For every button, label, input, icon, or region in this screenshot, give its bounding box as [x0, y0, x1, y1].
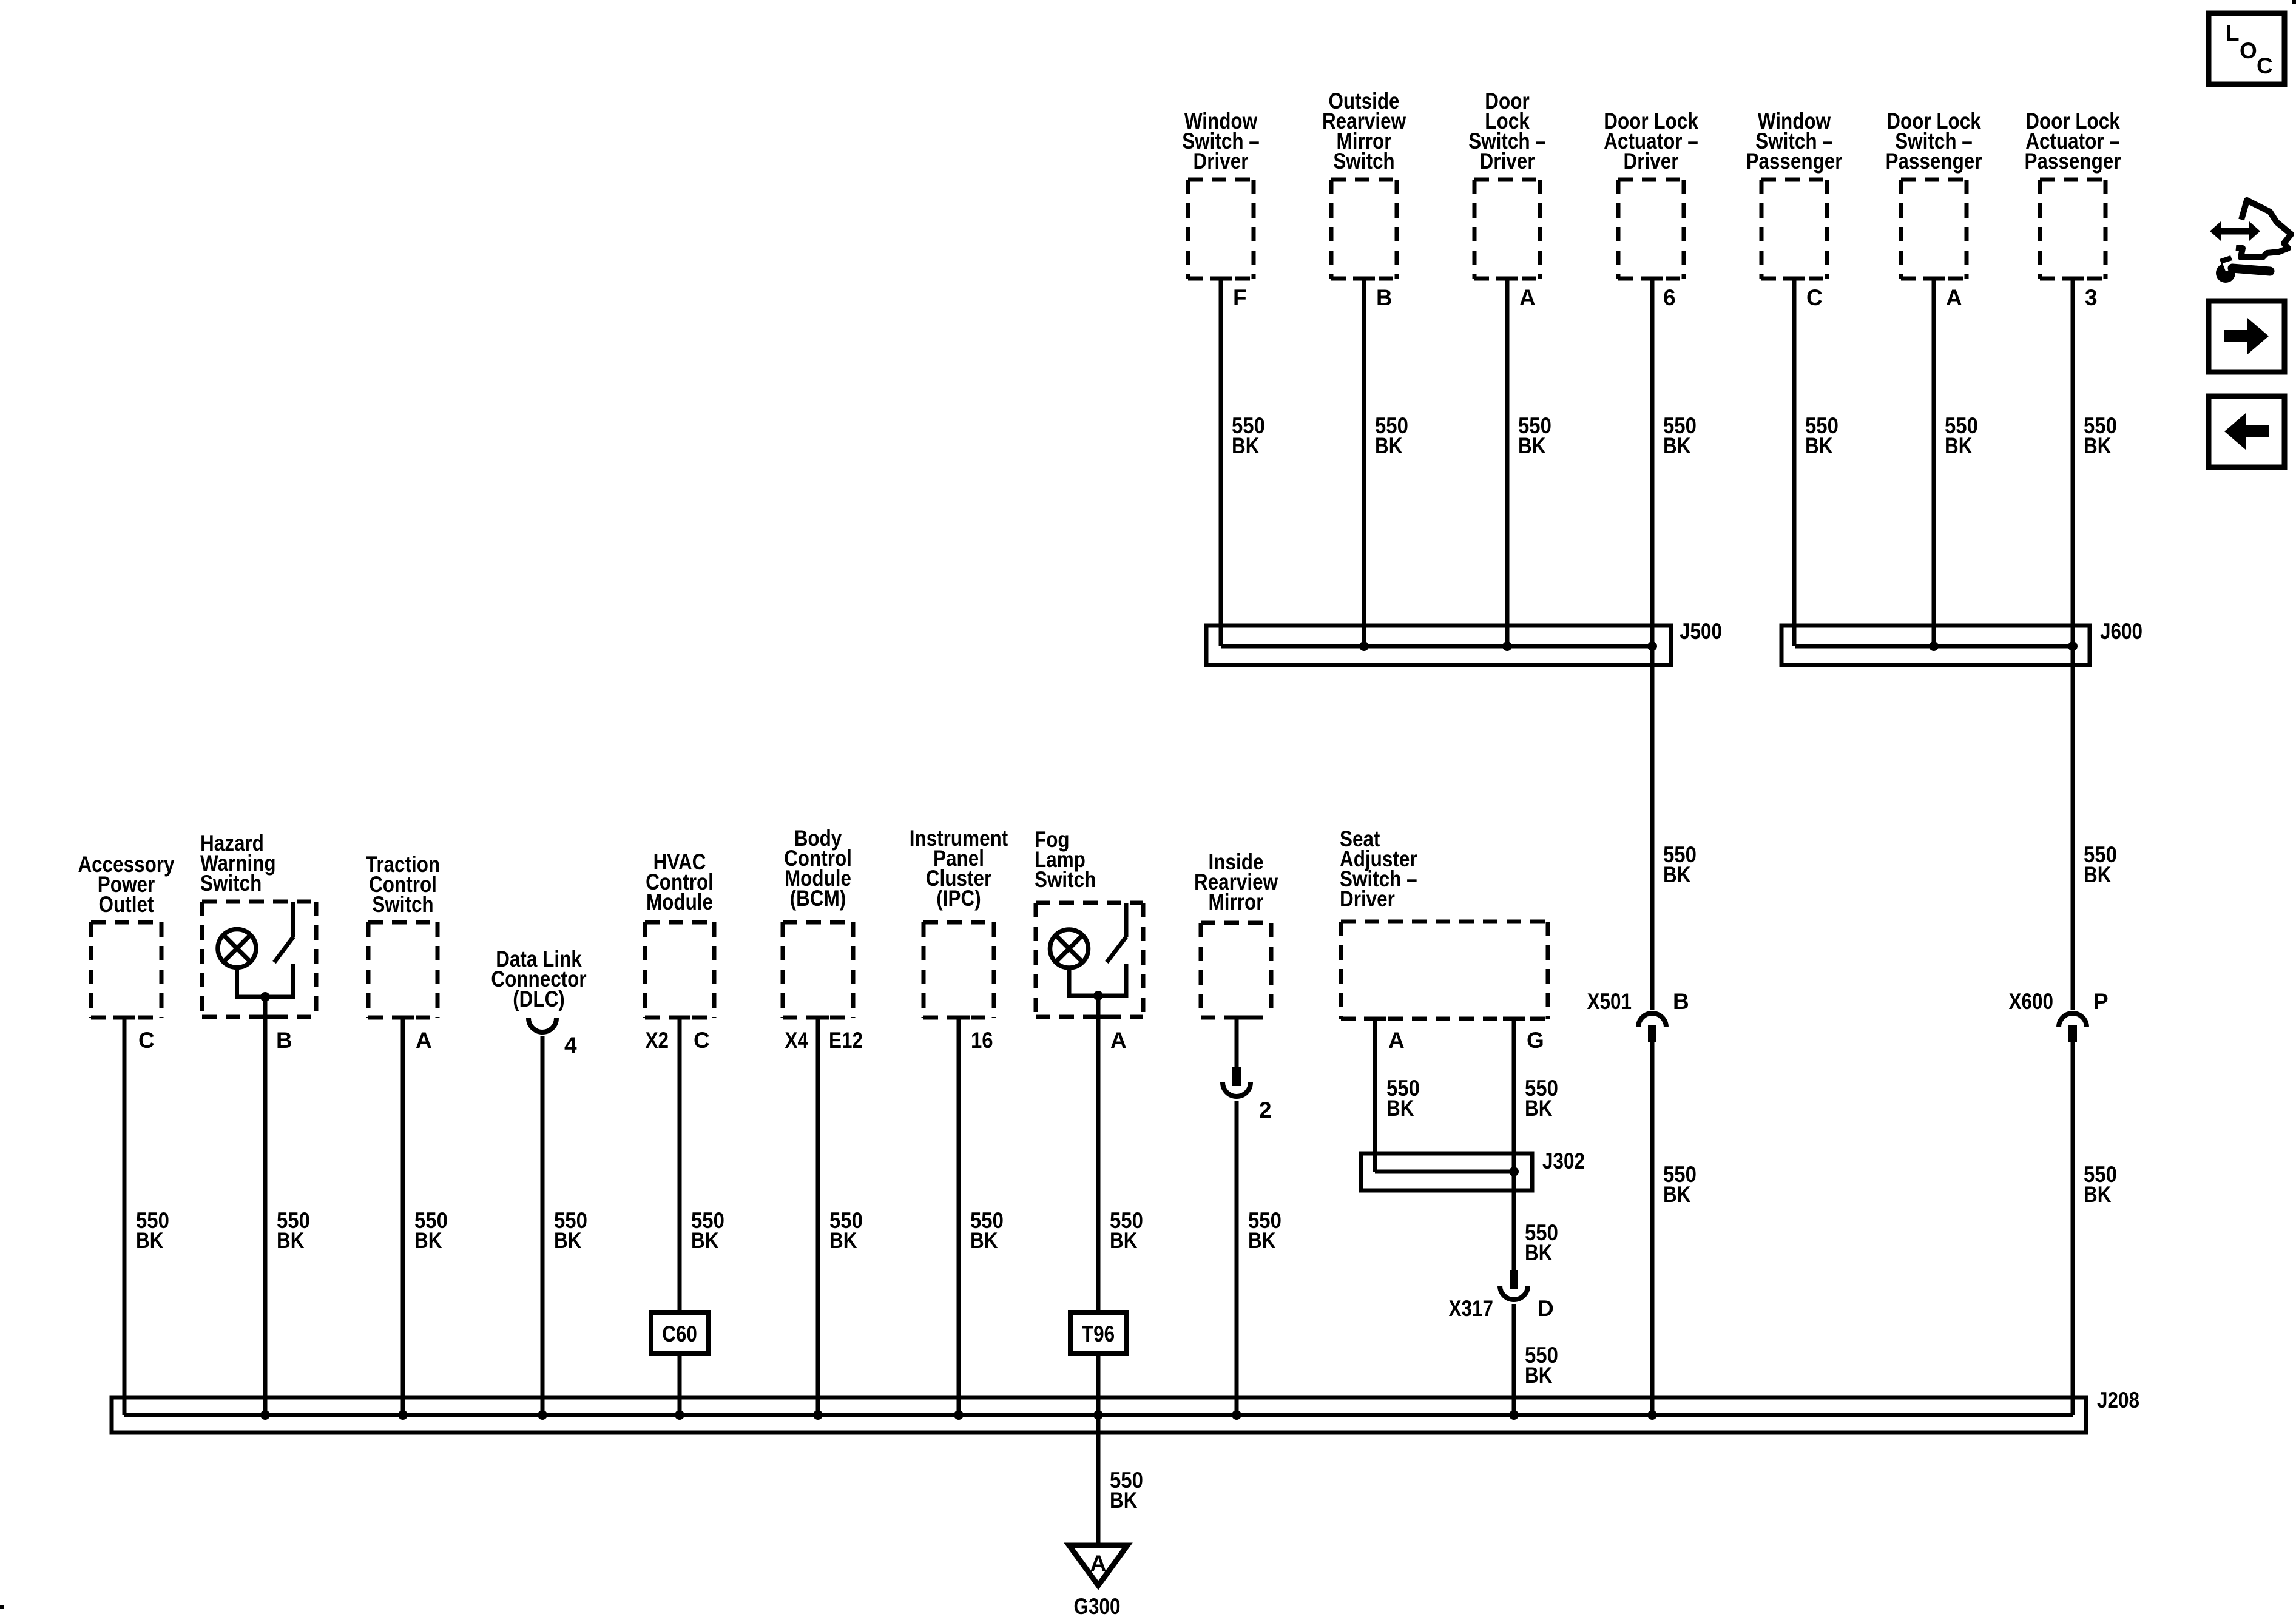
svg-text:BK: BK [1663, 433, 1691, 458]
component Fog Lamp Switch (dashed box with lamp and switch symbols, pin A) [1035, 827, 1143, 1017]
svg-text:BK: BK [829, 1228, 857, 1253]
svg-text:Module: Module [646, 890, 713, 914]
svg-text:Passenger: Passenger [2024, 149, 2121, 174]
wire from X317 to J208 with 550 BK label [1514, 1304, 1558, 1415]
indicator lamp inside Hazard Warning Switch [218, 930, 256, 999]
svg-text:J208: J208 [2097, 1388, 2139, 1413]
component Door Lock Switch - Passenger (dashed box, pin A, wire to J600) [1885, 109, 1982, 646]
svg-text:E12: E12 [829, 1028, 863, 1053]
navigation icon arrow-left box [2209, 396, 2284, 467]
wire from X501 to J208 with 550 BK label [1652, 1042, 1697, 1415]
svg-text:B: B [1673, 989, 1689, 1014]
component Door Lock Actuator - Passenger (dashed box, pin 3, wire through J600 to X600) [2024, 109, 2121, 1010]
svg-text:BK: BK [1805, 433, 1833, 458]
svg-text:Switch: Switch [372, 892, 433, 917]
svg-text:A: A [1946, 285, 1962, 310]
svg-text:BK: BK [136, 1228, 164, 1253]
svg-text:2: 2 [1259, 1098, 1272, 1122]
svg-text:BK: BK [554, 1228, 582, 1253]
component Window Switch - Driver (dashed box, label, pin F, wire to J500) [1182, 109, 1265, 646]
svg-text:A: A [1388, 1028, 1405, 1053]
svg-text:G300: G300 [1074, 1594, 1121, 1617]
wire label 550 BK on X501 wire (upper) [1663, 842, 1697, 887]
wire from X600 to J208 with 550 BK label [2073, 1042, 2117, 1415]
svg-text:4: 4 [564, 1033, 577, 1058]
svg-text:J500: J500 [1680, 619, 1722, 644]
svg-text:A: A [1519, 285, 1536, 310]
component HVAC Control Module (dashed box, connector X2 pin C, wire through C60 to J208) [645, 849, 724, 1312]
component Outside Rearview Mirror Switch (dashed box, pin B, wire to J500) [1322, 89, 1408, 646]
component Accessory Power Outlet (dashed box, pin C, wire to J208) [78, 852, 174, 1415]
splice pack J600 (ground bus bar with junction dots) [1781, 619, 2142, 665]
svg-text:BK: BK [2084, 1182, 2112, 1207]
svg-text:X317: X317 [1449, 1296, 1493, 1321]
icon harness repair (double arrow, panel outline and wrench) [2210, 200, 2291, 283]
harness label box C60 on HVAC ground wire [651, 1312, 709, 1415]
svg-text:Passenger: Passenger [1885, 149, 1982, 174]
component Hazard Warning Switch (dashed box with lamp and switch symbols, pin B) [200, 831, 316, 1017]
svg-text:Driver: Driver [1624, 149, 1679, 174]
svg-text:(DLC): (DLC) [513, 987, 565, 1011]
wire A from Seat Adjuster Switch to J302 with 550 BK label [1375, 1019, 1420, 1172]
svg-text:C: C [694, 1028, 710, 1053]
svg-text:A: A [1110, 1028, 1127, 1053]
svg-text:BK: BK [1663, 862, 1691, 887]
svg-text:L: L [2226, 21, 2240, 46]
component Door Lock Switch - Driver (dashed box, pin A, wire to J500) [1468, 89, 1551, 646]
svg-text:D: D [1538, 1296, 1554, 1321]
in-line connector X501 pin B [1587, 989, 1689, 1042]
svg-text:G: G [1527, 1028, 1544, 1053]
svg-text:C: C [2257, 53, 2273, 78]
wire G from Seat Adjuster Switch through J302 to X317 with 550 BK label [1514, 1019, 1558, 1270]
ground symbol G300 (triangle with pin A) [1069, 1545, 1127, 1617]
component Instrument Panel Cluster IPC (dashed box, pin 16, wire to J208) [910, 826, 1008, 1415]
svg-text:(IPC): (IPC) [936, 886, 981, 911]
switch contact inside Hazard Warning Switch [237, 902, 294, 999]
svg-text:BK: BK [1525, 1363, 1553, 1388]
svg-text:Driver: Driver [1194, 149, 1249, 174]
svg-text:B: B [276, 1028, 292, 1053]
component Data Link Connector (DLC) with female cup pin 4, wire to J208 [491, 947, 587, 1415]
svg-text:3: 3 [2085, 285, 2098, 310]
navigation icon arrow-right box [2209, 301, 2284, 372]
svg-text:BK: BK [1248, 1228, 1276, 1253]
svg-text:BK: BK [1663, 1182, 1691, 1207]
svg-text:C: C [138, 1028, 155, 1053]
svg-text:Driver: Driver [1480, 149, 1535, 174]
svg-text:J302: J302 [1542, 1149, 1585, 1173]
svg-text:Switch: Switch [200, 871, 262, 896]
svg-text:T96: T96 [1082, 1322, 1115, 1346]
svg-text:Driver: Driver [1340, 886, 1395, 911]
svg-text:Outlet: Outlet [99, 892, 154, 917]
svg-text:BK: BK [970, 1228, 998, 1253]
svg-text:BK: BK [1110, 1488, 1138, 1513]
svg-text:J600: J600 [2100, 619, 2142, 644]
svg-text:A: A [416, 1028, 432, 1053]
component Traction Control Switch (dashed box, pin A, wire to J208) [366, 852, 448, 1415]
wire from J208 to ground G300 with 550 BK label [1098, 1433, 1143, 1545]
component Window Switch - Passenger (dashed box, pin C, wire to J600) [1746, 109, 1842, 646]
svg-text:X501: X501 [1587, 989, 1632, 1014]
svg-text:C: C [1806, 285, 1823, 310]
svg-text:BK: BK [691, 1228, 719, 1253]
svg-text:Passenger: Passenger [1746, 149, 1842, 174]
in-line connector X317 pin D [1449, 1270, 1554, 1321]
svg-text:BK: BK [1518, 433, 1546, 458]
junction dot and wire B from Hazard Warning Switch to J208 [260, 992, 310, 1415]
svg-text:X2: X2 [646, 1028, 669, 1053]
svg-text:Mirror: Mirror [1209, 890, 1264, 914]
svg-text:O: O [2240, 38, 2257, 63]
svg-text:BK: BK [1110, 1228, 1138, 1253]
junction dot and wire A from Fog Lamp Switch through T96 to J208 and G300 [1093, 991, 1143, 1312]
svg-text:BK: BK [1375, 433, 1403, 458]
switch contact inside Fog Lamp Switch [1069, 903, 1126, 998]
legend icon LOC box (top right) [2209, 13, 2284, 84]
svg-text:A: A [1090, 1551, 1107, 1576]
component Door Lock Actuator - Driver (dashed box, pin 6, wire through J500 to X501) [1604, 109, 1698, 1010]
wire label 550 BK on X600 wire (upper) [2084, 842, 2117, 887]
svg-text:BK: BK [1525, 1096, 1553, 1121]
svg-text:BK: BK [1386, 1096, 1414, 1121]
svg-text:BK: BK [1945, 433, 1973, 458]
svg-text:B: B [1376, 285, 1393, 310]
svg-text:16: 16 [971, 1028, 993, 1053]
svg-text:BK: BK [414, 1228, 442, 1253]
svg-text:BK: BK [1232, 433, 1260, 458]
component Inside Rearview Mirror (dashed box, in-line connector pin 2, wire to J208) [1194, 849, 1278, 1067]
svg-text:C60: C60 [662, 1322, 697, 1346]
indicator lamp inside Fog Lamp Switch [1050, 930, 1089, 998]
component Body Control Module BCM (dashed box, connector X4 pin E12, wire to J208) [783, 826, 863, 1415]
in-line connector X600 pin P [2009, 989, 2109, 1042]
svg-text:BK: BK [1525, 1240, 1553, 1265]
svg-text:X4: X4 [785, 1028, 809, 1053]
svg-text:X600: X600 [2009, 989, 2053, 1014]
svg-text:BK: BK [2084, 862, 2112, 887]
svg-text:BK: BK [2084, 433, 2112, 458]
ground bus bar J208 (with junction dots for all ground wires) [112, 1388, 2139, 1433]
splice pack J500 (ground bus bar with junction dots) [1206, 619, 1722, 665]
in-line connector pin 2 below Inside Rearview Mirror [1223, 1067, 1281, 1415]
svg-text:Switch: Switch [1035, 867, 1096, 892]
splice pack J302 (bus bar with junction dot) [1361, 1149, 1585, 1190]
svg-text:6: 6 [1663, 285, 1676, 310]
component Seat Adjuster Switch - Driver (wide dashed box, pins A and G) [1340, 826, 1548, 1019]
harness label box T96 on Fog Lamp Switch ground wire [1070, 1312, 1126, 1545]
wire label 550 BK between J302 and X317 [1525, 1220, 1558, 1265]
svg-text:F: F [1233, 285, 1247, 310]
svg-text:P: P [2093, 989, 2109, 1014]
svg-text:(BCM): (BCM) [790, 886, 846, 911]
svg-text:Switch: Switch [1333, 149, 1394, 174]
svg-text:BK: BK [277, 1228, 305, 1253]
